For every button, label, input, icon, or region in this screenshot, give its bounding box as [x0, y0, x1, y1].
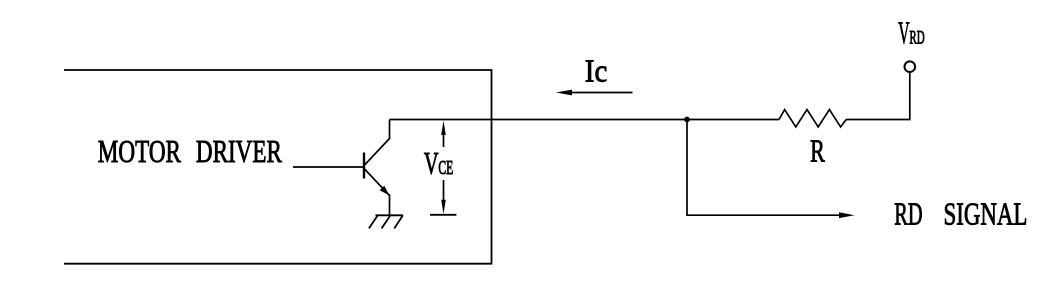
resistor R zigzag: [779, 110, 846, 127]
Vce dimension upper arrow: [441, 121, 446, 148]
wire: collector vertical: [389, 120, 391, 140]
wire: main collector line to resistor: [390, 119, 780, 121]
svg-text:MOTOR: MOTOR: [98, 134, 182, 169]
wire: resistor to Vrd terminal: [846, 73, 910, 120]
wire: emitter vertical to ground: [389, 195, 391, 216]
RD signal arrowhead: [839, 212, 855, 218]
svg-text:Ic: Ic: [585, 53, 608, 88]
svg-text:RD: RD: [894, 196, 922, 231]
svg-text:SIGNAL: SIGNAL: [944, 196, 1028, 231]
transistor Q1 emitter diagonal: [365, 169, 390, 196]
wire: base lead from label to transistor: [293, 166, 364, 168]
transistor Q1 base bar: [363, 153, 365, 179]
Vrd terminal circle: [905, 61, 916, 72]
node junction dot: [684, 117, 690, 123]
transistor Q1 emitter arrowhead: [380, 186, 390, 196]
svg-text:CE: CE: [438, 158, 453, 179]
transistor Q1 collector diagonal: [365, 139, 390, 166]
svg-text:V: V: [898, 16, 909, 51]
Vce dimension lower arrow: [441, 180, 446, 214]
motor driver enclosure box (open left side): [64, 70, 492, 264]
Vce dimension bottom tick: [430, 214, 456, 216]
ground symbol: [369, 215, 403, 228]
svg-text:V: V: [424, 146, 439, 181]
Ic current arrow: [556, 90, 633, 96]
svg-text:RD: RD: [909, 29, 924, 49]
svg-text:R: R: [810, 133, 825, 168]
svg-text:DRIVER: DRIVER: [196, 134, 283, 169]
wire: node branch down and right to RD signal: [687, 120, 840, 216]
